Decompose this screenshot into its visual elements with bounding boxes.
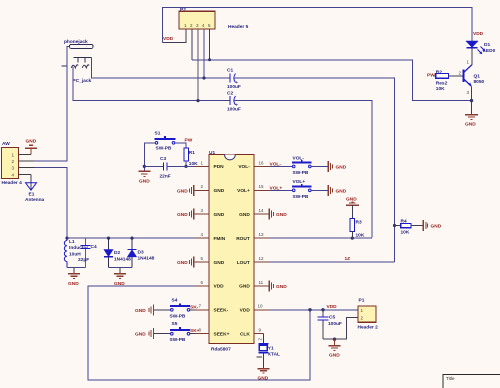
ground port GND at U1 pin2 (177, 185, 194, 196)
switch S5 SW-PB (170, 321, 191, 343)
svg-text:S1: S1 (155, 131, 161, 137)
svg-text:GND: GND (26, 138, 37, 144)
svg-text:Header 2: Header 2 (358, 325, 379, 331)
switch S4 SW-PB (170, 297, 191, 319)
node D2 junction on FMIN rail (107, 237, 110, 240)
wire S1 right to R1 with PW label (175, 143, 186, 148)
svg-text:13: 13 (259, 232, 265, 237)
svg-text:R1: R1 (189, 150, 195, 156)
wire GND to S4 (154, 309, 171, 311)
pin 2 stub AW (19, 160, 34, 162)
wire ROUT pin13 (269, 237, 372, 239)
svg-text:Res2: Res2 (436, 81, 448, 87)
node gnd stem junction (333, 338, 336, 341)
ground port GND at U1 pin11 (269, 280, 287, 291)
resistor R4 10K (395, 219, 424, 236)
svg-text:100uF: 100uF (328, 321, 342, 327)
pin 4 stub AW (19, 173, 32, 175)
pin 8 stub U1 (194, 333, 209, 335)
svg-text:GND: GND (177, 188, 188, 194)
wire GND to C3 left plate (144, 165, 163, 167)
diode D3 1N4148 (128, 238, 155, 267)
svg-text:1N4148: 1N4148 (138, 256, 155, 262)
switch S1 SW-PB (155, 131, 176, 152)
node C5 junction on pin10 wire (321, 308, 324, 311)
svg-text:Header 5: Header 5 (228, 24, 249, 30)
svg-text:11: 11 (259, 280, 264, 285)
svg-text:GND: GND (276, 212, 287, 218)
svg-text:VDD: VDD (327, 304, 338, 310)
node P2 pin4 on C1 wire (202, 76, 205, 79)
wire crystal to gnd (263, 353, 265, 368)
svg-text:GND: GND (177, 212, 188, 218)
node C3 gnd junction (143, 165, 146, 168)
op-amp U1 Rda5807 FM radio IC (209, 150, 254, 353)
svg-text:VDD: VDD (214, 284, 225, 290)
svg-text:VDD: VDD (163, 36, 174, 42)
svg-text:SEEK+: SEEK+ (214, 332, 230, 338)
wire AW pin1 up to GND (30, 149, 32, 155)
svg-text:PDN: PDN (214, 164, 225, 170)
wire P2 pins2-5 to transistor emitter gnd (192, 60, 472, 101)
ground GND below C5 (329, 346, 341, 359)
svg-text:C4: C4 (91, 244, 97, 250)
svg-text:22pF: 22pF (78, 257, 89, 263)
ground port GND right of S3 (328, 185, 346, 196)
connector P2 (179, 7, 249, 30)
wire P2 pin2 down (191, 29, 193, 60)
svg-text:XTAL: XTAL (268, 351, 280, 357)
wire GND to S5 (154, 333, 171, 335)
ground GND below Q1 (465, 115, 478, 128)
wire P2 pin4 down to node (203, 29, 205, 78)
LED D1 LED0 (466, 41, 496, 54)
pin 16 stub U1 (254, 165, 269, 167)
wire FMIN rail to U1 pin4 (67, 237, 195, 239)
wire diode bottom rail (109, 267, 133, 269)
capacitor C1 100uF (227, 68, 241, 91)
svg-text:Antenna: Antenna (25, 197, 45, 203)
resistor R2 Res2 10K (427, 69, 463, 92)
svg-text:E1: E1 (29, 192, 35, 198)
wire P2 pin5 down (209, 29, 211, 60)
connector P1 Header 2 (358, 298, 379, 331)
svg-text:GND: GND (329, 353, 340, 359)
svg-text:Header 4: Header 4 (2, 180, 23, 186)
node emitter gnd junction (470, 99, 473, 102)
ground port GND right of S2 (328, 161, 346, 172)
ground port GND at U1 pin5 (177, 257, 194, 268)
svg-text:SW-PB: SW-PB (170, 337, 186, 343)
wire tank gnd stem (73, 268, 75, 274)
svg-text:GND: GND (258, 375, 269, 381)
ground port GND left of S5 (135, 328, 154, 339)
svg-text:D1: D1 (484, 42, 490, 48)
pin 12 stub U1 (254, 261, 269, 263)
pin 7 stub U1 (194, 309, 209, 311)
capacitor C4 22pF (78, 238, 97, 267)
svg-text:GND: GND (135, 308, 146, 314)
wire pin16 to S2 (269, 165, 293, 167)
svg-text:GND: GND (336, 164, 347, 170)
svg-text:PC_jack: PC_jack (73, 78, 92, 84)
svg-text:GND: GND (68, 281, 79, 287)
svg-text:GND: GND (177, 260, 188, 266)
connector AW Header 4 (2, 141, 23, 186)
transistor Q1 8050 (459, 60, 485, 96)
svg-text:1Z: 1Z (345, 256, 351, 262)
svg-text:14: 14 (259, 208, 265, 213)
wire S4 to pin7 with SK- label (190, 309, 195, 311)
wire AW pin3 to FMIN node (34, 168, 68, 238)
wire S5 to pin8 with SK+ label (190, 333, 195, 335)
svg-text:10K: 10K (401, 229, 410, 235)
ground GND below S1 (138, 171, 150, 184)
svg-text:VOL+: VOL+ (293, 179, 306, 185)
svg-text:D3: D3 (138, 250, 144, 256)
node P2 pin5 junction (208, 58, 211, 61)
wire AW pin4 down to antenna (30, 174, 32, 190)
node R1-PDN junction (184, 165, 187, 168)
svg-text:10K: 10K (436, 86, 445, 92)
resistor R3 10K (350, 205, 365, 239)
svg-text:R3: R3 (356, 220, 362, 226)
resistor R1 10K (184, 148, 198, 167)
pin 11 stub U1 (254, 285, 269, 287)
wire emitter node to ground (471, 101, 473, 114)
svg-text:SK+: SK+ (190, 328, 200, 334)
svg-text:Q1: Q1 (474, 74, 481, 80)
svg-text:FMIN: FMIN (214, 236, 226, 242)
svg-text:GND: GND (431, 224, 442, 230)
svg-text:SEEK-: SEEK- (214, 308, 229, 314)
svg-text:16: 16 (259, 160, 265, 165)
wire S2 to GND port (311, 165, 328, 167)
svg-text:GND: GND (336, 188, 347, 194)
svg-text:SK-: SK- (190, 304, 199, 310)
pin 14 stub U1 (254, 213, 269, 215)
crystal Y1 XTAL (258, 338, 281, 358)
capacitor C5 100uF (318, 310, 342, 339)
switch S2 VOL- SW-PB (292, 155, 312, 176)
wire pin15 to S3 (269, 189, 293, 191)
wire phonejack upper contact to C1 (92, 57, 230, 78)
svg-text:1N4148: 1N4148 (114, 256, 131, 262)
svg-text:10: 10 (258, 304, 264, 309)
ground port GND left of S4 (135, 304, 154, 315)
svg-text:GND: GND (214, 212, 225, 218)
ground GND below Y1 (257, 369, 269, 382)
wire R1 bottom to PDN (185, 161, 187, 166)
svg-text:L1: L1 (69, 239, 75, 245)
svg-text:D2: D2 (114, 250, 120, 256)
wire C3 right plate to IC pin1 PDN (167, 165, 194, 167)
wire P2 pin3 down to node (197, 29, 199, 101)
capacitor C3 22nF (160, 156, 171, 180)
svg-text:VOL+: VOL+ (237, 188, 250, 194)
wire diode gnd stem (119, 268, 121, 274)
ground GND below D2 D3 (114, 274, 126, 287)
node R3 on ROUT (351, 237, 354, 240)
ground port GND at U1 pin3 (177, 209, 194, 220)
svg-text:12: 12 (259, 256, 265, 261)
pin 3 stub AW (19, 167, 34, 169)
svg-text:C2: C2 (227, 91, 233, 97)
crystal lower tick (257, 356, 262, 358)
wire U1 pin6 VDD to bottom loop (88, 286, 310, 380)
svg-text:Rda5807: Rda5807 (211, 347, 231, 353)
title block (443, 375, 500, 388)
wire gnd stem (334, 339, 336, 345)
wire C2 to ROUT vertical (235, 101, 373, 238)
pin 6 stub U1 (194, 285, 209, 287)
svg-text:SW-PB: SW-PB (156, 146, 172, 152)
svg-text:C1: C1 (227, 68, 233, 74)
svg-text:VDD: VDD (240, 308, 251, 314)
svg-text:100uF: 100uF (227, 107, 241, 113)
wire LED to Q1 collector (471, 48, 473, 65)
pin 1 stub U1 (194, 165, 209, 167)
svg-text:AW: AW (2, 141, 10, 147)
wire tank bottom rail (67, 267, 85, 269)
wire VDD to P2 pin1 (163, 29, 187, 42)
wire U1 pin9 CLK to crystal (263, 334, 265, 344)
pin 9 stub U1 (254, 333, 264, 335)
svg-text:GND: GND (239, 284, 250, 290)
wire phonejack lower contact to C2 (73, 67, 229, 101)
node D3 junction on FMIN rail (130, 237, 133, 240)
switch S3 VOL+ SW-PB (292, 179, 312, 200)
phonejack J1 (62, 39, 94, 84)
node FMIN tank junction (65, 237, 68, 240)
svg-text:SW-PB: SW-PB (170, 313, 186, 319)
svg-text:VDD: VDD (473, 31, 484, 37)
wire LOUT pin12 (269, 261, 395, 263)
svg-text:10K: 10K (356, 233, 365, 239)
ground port GND right of R4 (423, 220, 441, 231)
antenna E1 (25, 183, 45, 203)
wire S3 to GND port (311, 189, 328, 191)
pin 1 stub AW (19, 153, 32, 155)
svg-text:GND: GND (214, 188, 225, 194)
svg-text:22nF: 22nF (160, 174, 171, 180)
svg-text:15: 15 (259, 184, 265, 189)
svg-text:ROUT: ROUT (236, 236, 250, 242)
ground port GND at U1 pin14 (269, 209, 287, 220)
pin 10 stub U1 (254, 309, 269, 311)
svg-text:S4: S4 (172, 297, 178, 303)
ground GND above AW pin1 (25, 138, 37, 148)
svg-text:P1: P1 (359, 298, 365, 304)
svg-text:10uH: 10uH (69, 252, 81, 258)
svg-text:GND: GND (135, 332, 146, 338)
pin 2 stub U1 (194, 189, 209, 191)
node R4 on LOUT vertical (393, 224, 396, 227)
pin 5 stub U1 (194, 261, 209, 263)
wire phonejack sleeve down to AW pin2 (34, 46, 70, 161)
wire C5 bottom to P1 pin2 (323, 318, 358, 340)
diode D2 1N4148 (104, 238, 131, 267)
capacitor C2 100uF (227, 91, 241, 113)
svg-text:GND: GND (214, 260, 225, 266)
svg-text:PW: PW (185, 138, 193, 144)
svg-text:8050: 8050 (474, 79, 485, 85)
ground GND below L1 (68, 274, 80, 287)
svg-text:C5: C5 (329, 315, 335, 321)
pin 15 stub U1 (254, 189, 269, 191)
wire Q1 emitter to gnd node (471, 86, 473, 100)
inductor L1 10uH (64, 238, 88, 267)
node loop junction on pin10 wire (308, 308, 311, 311)
svg-text:GND: GND (465, 122, 476, 128)
svg-text:VOL-: VOL- (238, 164, 250, 170)
svg-text:100uF: 100uF (227, 84, 241, 90)
wire S1 left to GND (144, 143, 155, 171)
node P2 pin3 on C2 wire (196, 99, 199, 102)
svg-text:C3: C3 (160, 156, 166, 162)
svg-text:GND: GND (139, 179, 150, 185)
svg-text:Title: Title (446, 376, 455, 381)
pin 4 stub U1 (194, 237, 209, 239)
wire U1 pin10 VDD to P1 (269, 309, 358, 311)
svg-text:LED0: LED0 (483, 48, 496, 54)
pin 13 stub U1 (254, 237, 269, 239)
svg-text:SW-PB: SW-PB (293, 170, 309, 176)
svg-text:GND: GND (239, 212, 250, 218)
wire C1 to LOUT vertical (235, 78, 395, 262)
svg-text:S5: S5 (172, 321, 178, 327)
svg-text:Y1: Y1 (268, 345, 274, 351)
svg-text:CLK: CLK (240, 332, 250, 338)
ground GND above R3 (346, 197, 359, 205)
svg-text:GND: GND (276, 284, 287, 290)
pin 3 stub U1 (194, 213, 209, 215)
svg-text:SW-PB: SW-PB (293, 194, 309, 200)
wire VDD top rail (163, 8, 473, 43)
svg-text:LOUT: LOUT (237, 260, 250, 266)
